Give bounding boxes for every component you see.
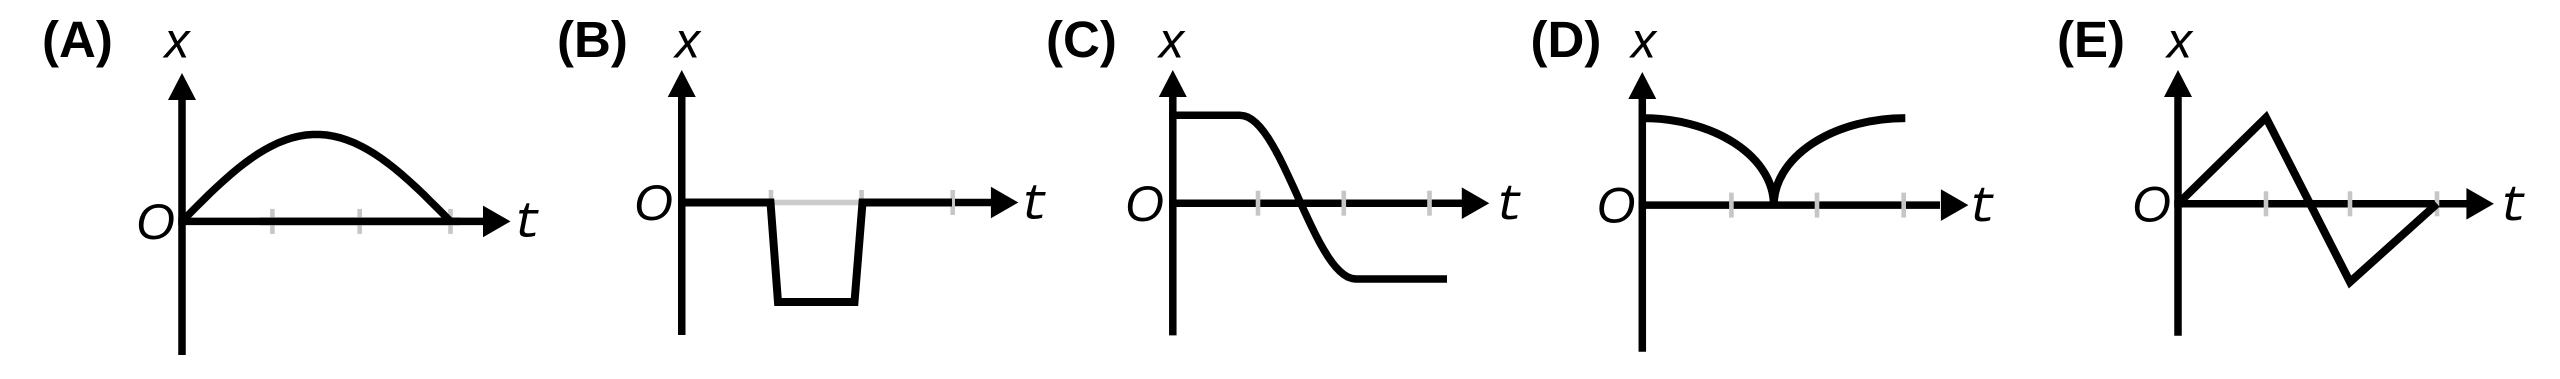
C y-axis arrowhead: [1159, 70, 1187, 97]
B tick 1: [769, 190, 774, 215]
C curve falling S: [1169, 115, 1447, 279]
svg-text:x: x: [673, 13, 702, 69]
svg-text:t: t: [1968, 180, 1998, 237]
B tick 3: [950, 190, 955, 215]
A tick 2: [357, 209, 362, 234]
A y-axis: [178, 97, 186, 355]
B t-axis arrowhead: [991, 187, 1019, 219]
B tick 2: [859, 190, 864, 215]
B y-axis arrowhead: [668, 70, 696, 97]
svg-text:t: t: [513, 196, 543, 253]
D tick 2: [1815, 193, 1820, 218]
A tick 1: [270, 209, 275, 234]
svg-text:O: O: [2132, 176, 2171, 232]
svg-text:x: x: [163, 13, 192, 69]
E t-axis: [2174, 200, 2470, 208]
svg-text:(E): (E): [2057, 11, 2125, 68]
panel A: [42, 11, 543, 355]
svg-text:O: O: [634, 175, 673, 231]
C tick 3: [1427, 191, 1432, 216]
E tick 1: [2264, 191, 2269, 216]
B curve square dip: [682, 203, 952, 303]
C t-axis: [1169, 199, 1464, 207]
svg-text:O: O: [136, 194, 175, 250]
panel B: [557, 11, 1050, 335]
svg-text:(C): (C): [1046, 11, 1117, 68]
svg-text:O: O: [1597, 178, 1636, 234]
svg-text:(D): (D): [1531, 11, 1602, 68]
svg-text:(A): (A): [42, 11, 113, 68]
E tick 2: [2348, 191, 2353, 216]
D t-axis arrowhead: [1941, 189, 1969, 221]
A axis overdraw at ticks: [260, 218, 460, 226]
E curve zigzag: [2178, 118, 2437, 283]
svg-text:x: x: [2165, 13, 2194, 69]
svg-text:O: O: [1125, 176, 1164, 232]
E tick 3: [2435, 191, 2440, 216]
D curve cusp arcs: [1642, 118, 1905, 205]
B y-axis: [678, 94, 686, 335]
D tick 3: [1901, 193, 1906, 218]
svg-text:x: x: [1629, 13, 1658, 69]
C y-axis: [1169, 94, 1177, 335]
A curve half-sine: [182, 135, 451, 222]
D y-axis: [1639, 96, 1647, 352]
A t-axis arrowhead: [483, 206, 511, 238]
svg-text:t: t: [2499, 179, 2529, 236]
D tick 1: [1729, 193, 1734, 218]
panel C: [1046, 11, 1525, 335]
C t-axis arrowhead: [1462, 187, 1490, 219]
C tick 1: [1256, 191, 1261, 216]
svg-text:x: x: [1157, 13, 1186, 69]
E y-axis arrowhead: [2164, 70, 2192, 97]
C tick 2: [1342, 191, 1347, 216]
A tick 3: [448, 209, 453, 234]
svg-text:t: t: [1495, 178, 1525, 235]
svg-text:(B): (B): [557, 11, 628, 68]
D y-axis arrowhead: [1628, 72, 1656, 99]
svg-text:t: t: [1020, 178, 1050, 235]
A y-axis arrowhead: [168, 73, 196, 100]
A t-axis: [178, 218, 486, 226]
B gray axis segment between ticks: [771, 200, 862, 206]
B t-axis left black part: [678, 199, 771, 207]
E t-axis arrowhead: [2466, 188, 2494, 220]
B t-axis right black part: [862, 199, 991, 207]
E y-axis: [2174, 94, 2182, 336]
panel E: [2057, 11, 2529, 336]
D t-axis: [1639, 201, 1941, 209]
panel D: [1531, 11, 1998, 352]
